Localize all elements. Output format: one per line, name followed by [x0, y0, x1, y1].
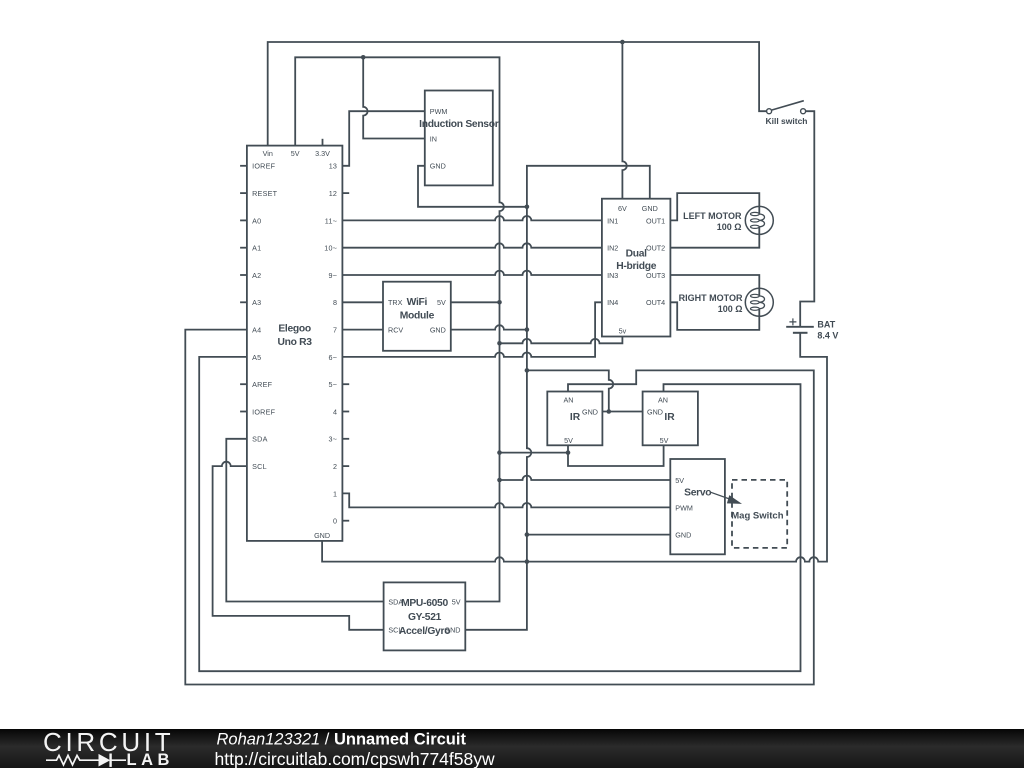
U1 stub pin IOREF: [240, 411, 247, 413]
U1 stub pin 0: [342, 520, 349, 522]
junction left IR 5V: [566, 450, 571, 455]
wire WiFi 5V to 5V rail: [451, 301, 500, 303]
svg-text:GND: GND: [430, 326, 446, 335]
svg-text:5~: 5~: [328, 380, 337, 389]
svg-text:RIGHT MOTOR: RIGHT MOTOR: [679, 293, 743, 303]
svg-text:AN: AN: [658, 396, 668, 405]
svg-text:5V: 5V: [564, 436, 573, 445]
svg-text:GND: GND: [582, 408, 598, 417]
wire pin11 to IN1: [342, 216, 602, 220]
wire right IR AN to A5: [199, 357, 800, 671]
U1 stub pin 5~: [342, 383, 349, 385]
svg-text:http://circuitlab.com/cpswh774: http://circuitlab.com/cpswh774f58yw: [215, 749, 495, 768]
U1 stub pin 3.3V: [322, 139, 324, 146]
junction 5V / WiFi 5V: [497, 300, 502, 305]
svg-text:A0: A0: [252, 216, 261, 225]
U1 stub pin 3~: [342, 438, 349, 440]
svg-text:Elegoo: Elegoo: [278, 323, 311, 334]
WiFi Module: [383, 282, 451, 351]
svg-text:GND: GND: [675, 531, 691, 540]
svg-text:3~: 3~: [328, 435, 337, 444]
junction GND rail / servo GND: [525, 532, 530, 537]
junction GND rail / WiFi GND: [525, 327, 530, 332]
svg-text:100 Ω: 100 Ω: [718, 304, 743, 314]
svg-text:7: 7: [333, 326, 337, 335]
U1 stub pin RESET: [240, 192, 247, 194]
junction Vin / 6V: [620, 40, 625, 45]
wire IR GND link: [602, 411, 642, 413]
svg-text:10~: 10~: [324, 244, 337, 253]
wire SCL to MPU: [213, 462, 384, 630]
wire pin9 to IN3: [342, 271, 602, 275]
wire H-bridge GND + GND rail: [465, 166, 650, 630]
svg-text:Mag Switch: Mag Switch: [731, 511, 783, 522]
svg-text:GY-521: GY-521: [408, 612, 442, 623]
wire OUT1 to M1: [670, 193, 759, 220]
U1 stub pin A1: [240, 247, 247, 249]
wire battery - to GND rail: [322, 333, 827, 561]
wire kill switch to battery +: [800, 111, 814, 326]
U1 stub pin 4: [342, 411, 349, 413]
svg-text:6V: 6V: [618, 204, 627, 213]
wire pin10 to IN2: [342, 243, 602, 247]
svg-text:2: 2: [333, 462, 337, 471]
svg-text:Dual: Dual: [626, 248, 648, 259]
svg-text:MPU-6050: MPU-6050: [401, 598, 448, 609]
wire 5V to Induction IN: [363, 57, 425, 138]
wire 5V rail to IR 5V: [500, 452, 569, 454]
svg-text:GND: GND: [314, 531, 330, 540]
svg-text:IOREF: IOREF: [252, 407, 276, 416]
svg-text:Vin: Vin: [263, 149, 273, 158]
svg-text:Induction Sensor: Induction Sensor: [419, 119, 499, 130]
svg-text:LEFT MOTOR: LEFT MOTOR: [683, 211, 742, 221]
battery V1: [786, 318, 814, 332]
svg-text:GND: GND: [445, 626, 461, 635]
U1 stub pin A3: [240, 301, 247, 303]
svg-text:5v: 5v: [619, 326, 627, 335]
svg-text:AN: AN: [564, 396, 574, 405]
svg-text:Servo: Servo: [684, 487, 711, 498]
junction IR GND: [607, 409, 612, 414]
right motor M2: [745, 288, 773, 316]
svg-text:3.3V: 3.3V: [315, 149, 330, 158]
svg-text:Module: Module: [400, 310, 435, 321]
svg-text:TRX: TRX: [388, 298, 403, 307]
U1 stub pin AREF: [240, 383, 247, 385]
svg-text:IR: IR: [570, 412, 581, 423]
wire left IR AN to A4: [185, 330, 814, 685]
U1 stub pin A2: [240, 274, 247, 276]
svg-text:4: 4: [333, 407, 337, 416]
svg-text:OUT3: OUT3: [646, 271, 665, 280]
svg-text:IN4: IN4: [607, 298, 618, 307]
wire pin7 to WiFi RCV: [342, 329, 383, 331]
svg-text:Uno R3: Uno R3: [277, 337, 312, 348]
svg-text:OUT1: OUT1: [646, 216, 665, 225]
junction 5V / H-bridge 5v branch: [497, 341, 502, 346]
wire H-bridge 6V to Vin rail: [622, 42, 626, 199]
svg-text:11~: 11~: [325, 216, 337, 225]
CircuitLab logo resistor symbol: [46, 755, 126, 765]
U1 stub pin 12: [342, 192, 349, 194]
svg-text:SDA: SDA: [388, 597, 403, 606]
svg-text:5V: 5V: [437, 298, 446, 307]
svg-text:LAB: LAB: [127, 751, 174, 768]
kill switch SW1: [767, 101, 806, 114]
U1 stub pin A0: [240, 219, 247, 221]
svg-text:OUT4: OUT4: [646, 298, 665, 307]
junction Induction GND / GND rail: [525, 205, 530, 210]
servo module: [670, 459, 725, 554]
junction 5V / IR 5V branch: [497, 450, 502, 455]
footer bar: [0, 729, 1024, 768]
U1 stub pin IOREF: [240, 165, 247, 167]
svg-text:WiFi: WiFi: [407, 297, 428, 308]
svg-text:100 Ω: 100 Ω: [717, 222, 742, 232]
svg-text:RESET: RESET: [252, 189, 278, 198]
svg-text:A4: A4: [252, 326, 261, 335]
wire pin1 to servo PWM: [342, 493, 670, 507]
svg-text:GND: GND: [647, 408, 663, 417]
svg-text:A2: A2: [252, 271, 261, 280]
svg-text:5V: 5V: [675, 476, 684, 485]
U1 stub pin 2: [342, 465, 349, 467]
right IR sensor: [643, 392, 698, 446]
wire pin8 to WiFi TRX: [342, 301, 383, 303]
svg-text:1: 1: [333, 489, 337, 498]
wire OUT2 to M1: [670, 227, 759, 248]
svg-text:GND: GND: [430, 162, 446, 171]
svg-text:13: 13: [329, 162, 338, 171]
junction GND rail / battery GND: [525, 559, 530, 564]
svg-text:IN3: IN3: [607, 271, 618, 280]
Elegoo Uno R3 U1: [247, 146, 343, 541]
svg-text:RCV: RCV: [388, 326, 403, 335]
svg-text:8.4 V: 8.4 V: [817, 331, 838, 341]
wire Induction GND to GND rail: [418, 166, 527, 207]
svg-text:IR: IR: [664, 412, 675, 423]
wire OUT3 to M2: [670, 275, 759, 296]
svg-text:IN: IN: [430, 134, 437, 143]
svg-text:PWM: PWM: [675, 503, 693, 512]
svg-text:6~: 6~: [328, 353, 337, 362]
left motor M1: [745, 206, 773, 234]
svg-text:8: 8: [333, 298, 337, 307]
svg-text:BAT: BAT: [817, 320, 835, 330]
svg-text:AREF: AREF: [252, 380, 273, 389]
svg-text:5V: 5V: [660, 436, 669, 445]
junction 5V / servo 5V: [497, 478, 502, 483]
svg-text:0: 0: [333, 517, 337, 526]
svg-text:SCL: SCL: [388, 626, 402, 635]
MPU-6050 GY-521 module: [384, 582, 466, 650]
wire IR 5V link: [568, 445, 664, 466]
wire GND rail to IR GND: [527, 370, 613, 411]
wire servo GND to GND rail: [527, 534, 670, 536]
wire OUT4 to M2: [670, 302, 759, 330]
svg-text:OUT2: OUT2: [646, 244, 665, 253]
svg-text:Kill switch: Kill switch: [765, 116, 807, 126]
svg-text:SDA: SDA: [252, 435, 268, 444]
wire SDA to MPU: [226, 439, 383, 602]
svg-text:A3: A3: [252, 298, 261, 307]
servo arrow: [711, 492, 743, 504]
svg-text:5V: 5V: [452, 597, 461, 606]
svg-text:PWM: PWM: [430, 107, 448, 116]
Induction Sensor module: [425, 91, 493, 186]
wire 5V rail to H-bridge 5v: [500, 337, 623, 344]
wire servo 5V to 5V rail: [500, 476, 671, 480]
svg-text:A1: A1: [252, 244, 261, 253]
svg-text:IN1: IN1: [607, 216, 618, 225]
wire pin6 to IN4: [342, 302, 602, 357]
svg-text:IOREF: IOREF: [252, 162, 276, 171]
CircuitLab logo diode symbol: [99, 754, 111, 767]
svg-text:SCL: SCL: [252, 462, 267, 471]
svg-text:A5: A5: [252, 353, 261, 362]
svg-text:12: 12: [329, 189, 338, 198]
svg-text:5V: 5V: [291, 149, 300, 158]
mag switch (dashed): [732, 480, 787, 548]
svg-text:IN2: IN2: [607, 244, 618, 253]
junction 5V rail / IN branch: [361, 55, 366, 60]
left IR sensor: [547, 392, 602, 446]
wire 5V rail: [295, 57, 504, 601]
svg-text:9~: 9~: [328, 271, 337, 280]
svg-text:GND: GND: [642, 204, 658, 213]
svg-text:Rohan123321 / Unnamed Circuit: Rohan123321 / Unnamed Circuit: [217, 731, 467, 749]
wire WiFi GND to GND rail: [451, 325, 527, 329]
wire Vin to kill switch (top rail): [268, 42, 767, 146]
svg-text:Accel/Gyro: Accel/Gyro: [399, 626, 450, 637]
wire pin13 to Induction PWM: [342, 111, 424, 166]
junction GND rail / IR GND branch: [525, 368, 530, 373]
Dual H-bridge driver: [602, 199, 671, 337]
